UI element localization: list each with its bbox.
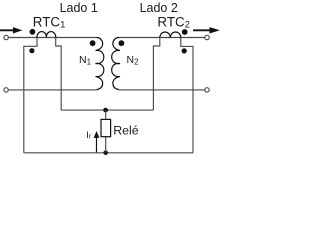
relay element box	[101, 119, 111, 136]
svg-text:RTC1: RTC1	[33, 14, 66, 30]
wire top conductor side 1	[8, 37, 96, 39]
wire bottom conductor side 2	[119, 89, 205, 91]
junction node top of relay	[103, 108, 108, 113]
arrow current out (right)	[193, 27, 220, 33]
wire bottom bus	[24, 152, 193, 154]
wire top conductor side 2	[119, 37, 205, 39]
svg-text:Lado 2: Lado 2	[140, 1, 178, 15]
svg-text:N2: N2	[127, 54, 140, 67]
svg-text:Relé: Relé	[113, 123, 139, 137]
transformer winding N1	[96, 37, 104, 89]
winding N1 polarity dot	[90, 40, 96, 46]
wire RTC2 secondary right lead	[181, 38, 193, 153]
wire RTC1 secondary right lead	[56, 38, 62, 111]
terminal bottom-right	[205, 88, 209, 92]
CT RTC1 polarity dot primary	[30, 29, 36, 35]
svg-text:Ir: Ir	[86, 129, 92, 140]
terminal top-right	[205, 35, 209, 39]
svg-text:N1: N1	[79, 54, 92, 67]
CT RTC2 polarity dot primary	[182, 29, 188, 35]
current Ir arrow	[94, 131, 100, 152]
transformer winding N2	[112, 37, 120, 89]
wire relay branch top	[105, 110, 107, 119]
wire bottom conductor side 1	[8, 89, 96, 91]
CT RTC2 secondary winding humps	[160, 32, 181, 38]
svg-text:RTC2: RTC2	[157, 14, 190, 30]
winding N2 polarity dot	[119, 40, 125, 46]
wire relay branch bottom	[105, 137, 107, 153]
terminal bottom-left	[4, 88, 8, 92]
arrow current in (left)	[0, 27, 22, 33]
terminal top-left	[4, 35, 8, 39]
wire RTC1 secondary left lead	[24, 38, 37, 153]
CT RTC2 polarity dot secondary	[182, 48, 187, 53]
CT RTC1 polarity dot secondary	[29, 48, 34, 53]
junction node bottom of relay	[103, 150, 108, 155]
wire RTC2 secondary left lead	[153, 38, 159, 111]
CT RTC1 secondary winding humps	[37, 32, 56, 38]
svg-text:Lado 1: Lado 1	[60, 1, 98, 15]
wire differential bus	[61, 109, 153, 111]
